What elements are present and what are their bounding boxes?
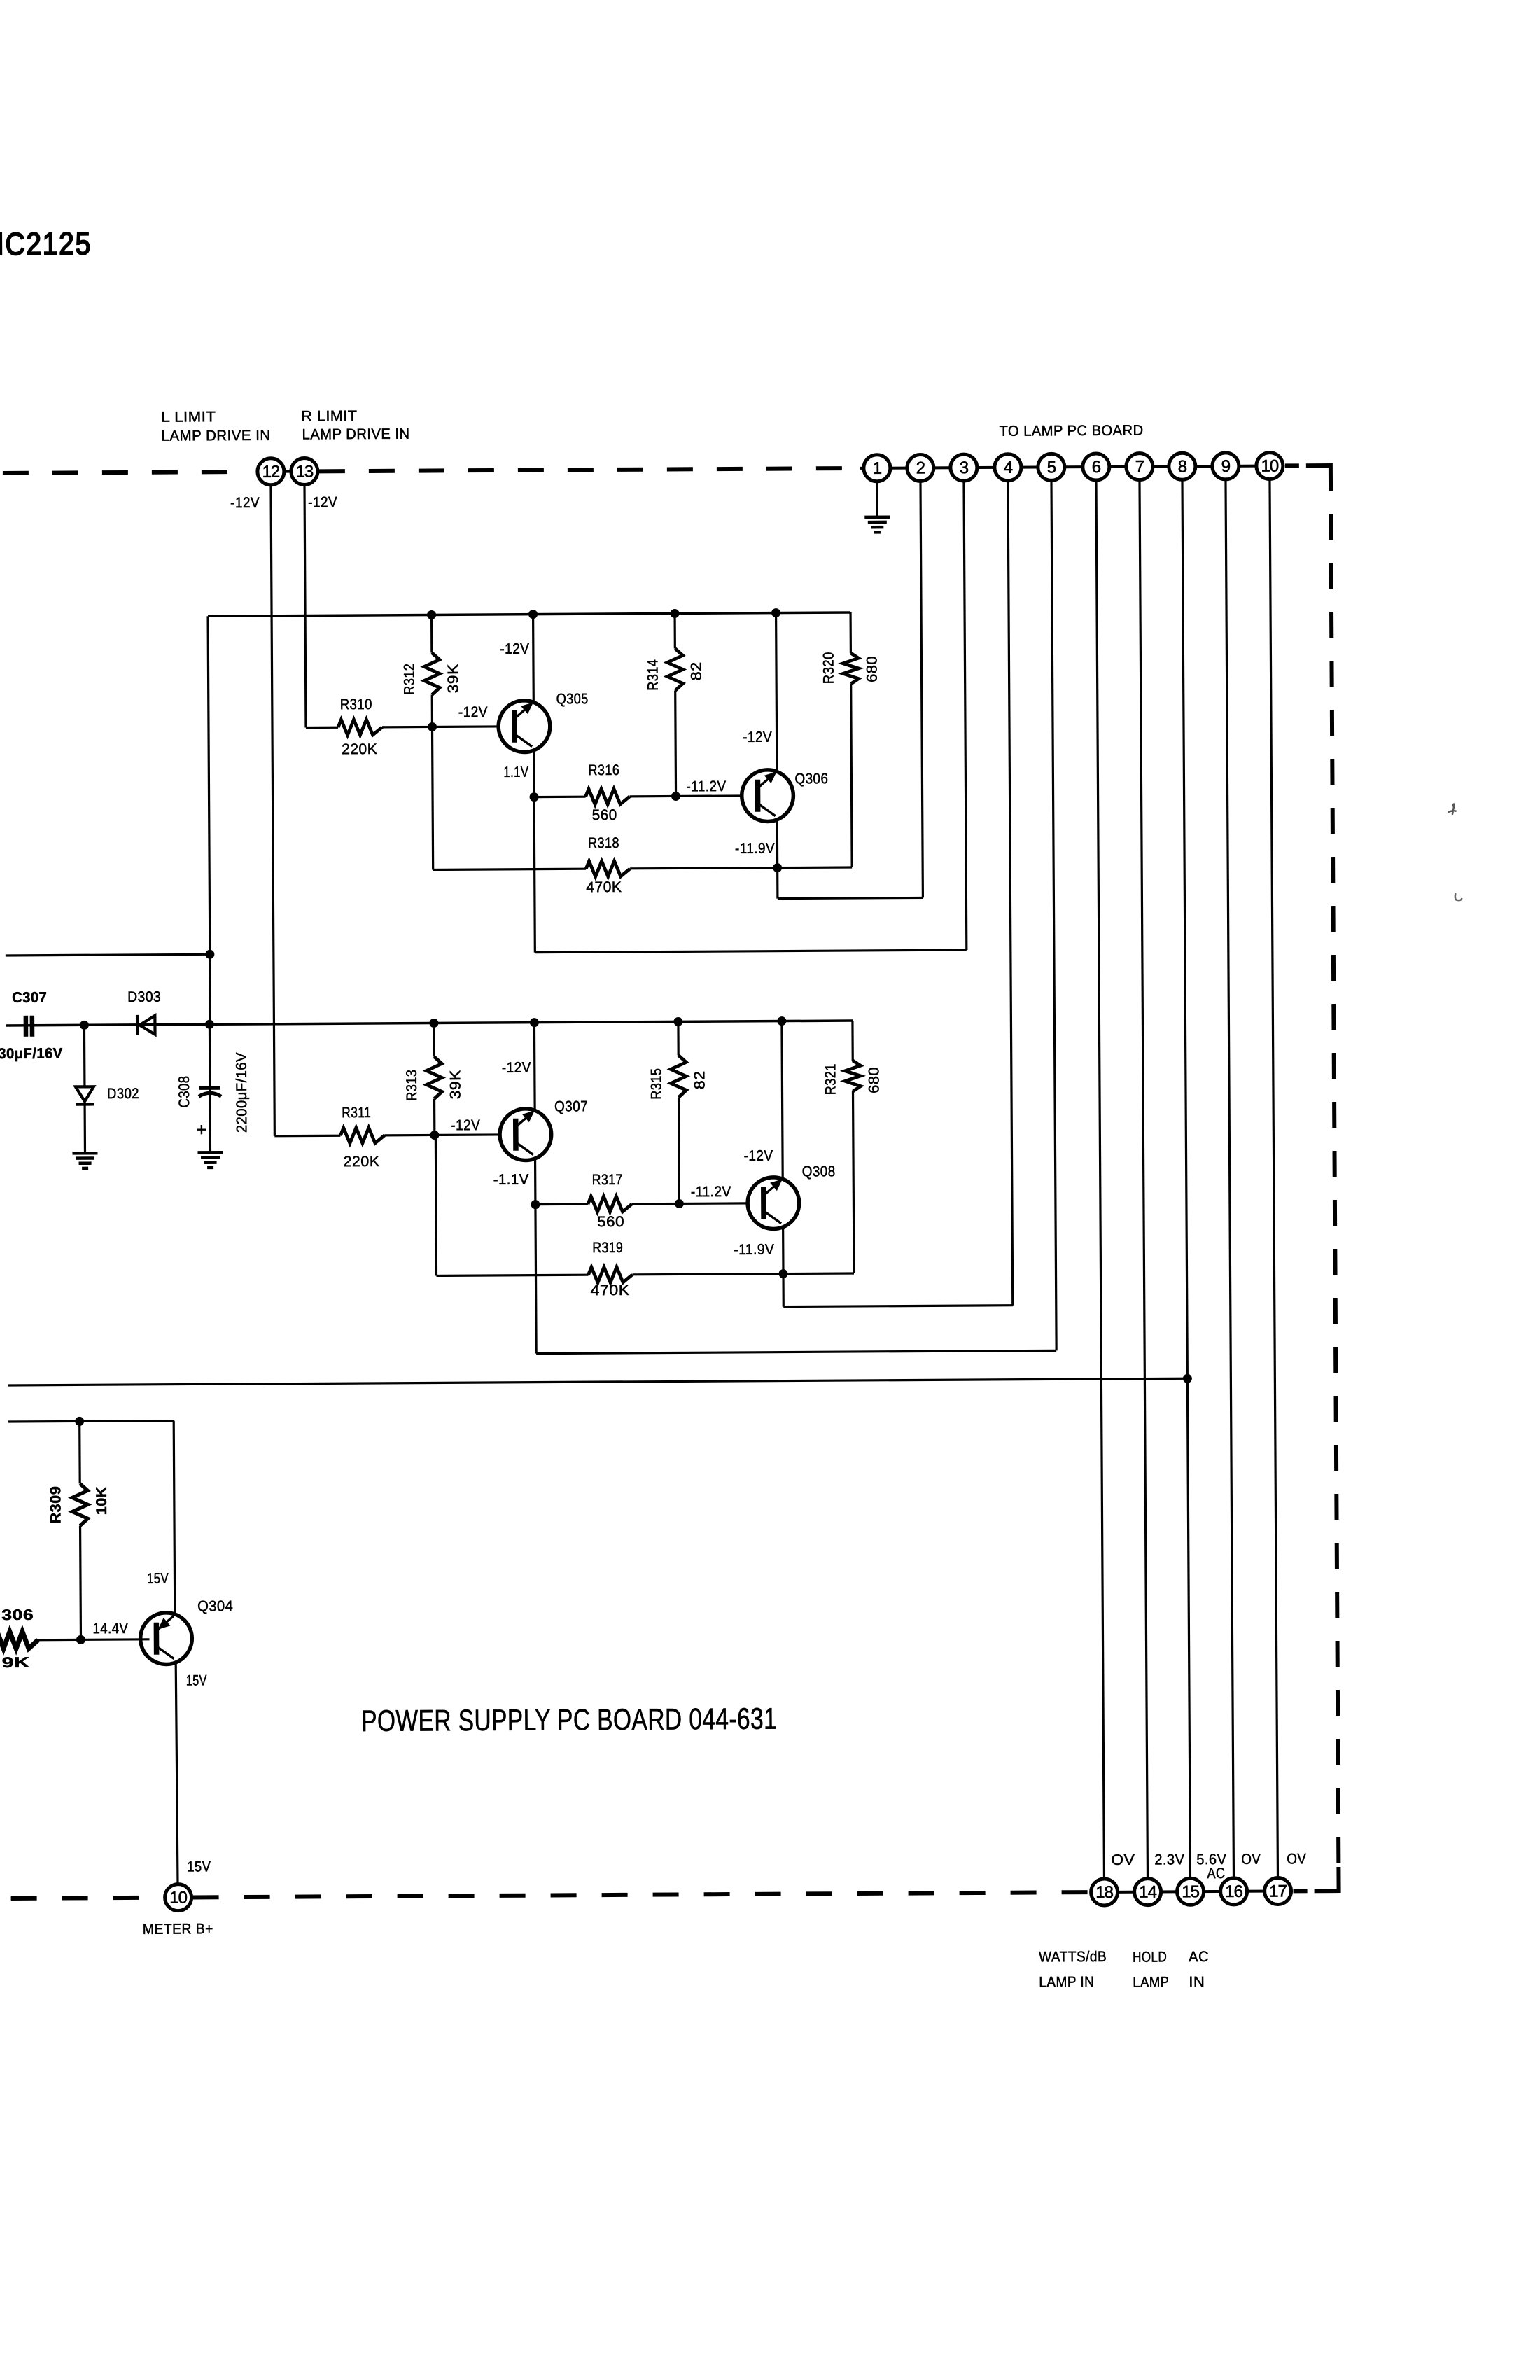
svg-text:4: 4	[1004, 458, 1013, 477]
wire terminal 13 drop to R310	[304, 484, 338, 727]
svg-text:-12V: -12V	[230, 495, 260, 511]
svg-text:470K: 470K	[591, 1282, 630, 1298]
wire 15V feed to Q304 collector	[8, 1421, 175, 1613]
resistor R316 560	[534, 762, 676, 823]
wire left stub at y1365	[6, 954, 210, 955]
svg-text:82: 82	[692, 1070, 708, 1089]
svg-text:680: 680	[864, 656, 880, 682]
wire Q308 collector to rail	[743, 1021, 783, 1179]
svg-text:220K: 220K	[344, 1154, 380, 1170]
transistor Q306	[742, 769, 829, 821]
label OV at terminal 17	[1287, 1851, 1306, 1867]
label R LIMIT LAMP DRIVE IN	[301, 408, 409, 443]
ground below D302	[72, 1153, 97, 1168]
transistor Q307	[500, 1098, 589, 1161]
svg-text:Q306: Q306	[794, 771, 828, 787]
svg-text:LAMP DRIVE IN: LAMP DRIVE IN	[302, 426, 410, 443]
svg-text:+: +	[196, 1119, 207, 1140]
terminal 17	[1264, 1877, 1291, 1904]
svg-text:R318: R318	[588, 835, 619, 851]
svg-text:R LIMIT: R LIMIT	[301, 408, 357, 424]
label OV at terminal 18	[1111, 1852, 1135, 1868]
svg-text:HOLD: HOLD	[1133, 1949, 1167, 1965]
terminal 13	[284, 458, 318, 484]
node junction R313 top on rail	[429, 1018, 438, 1028]
svg-text:R311: R311	[342, 1105, 371, 1121]
node junction R312 top on bus	[427, 610, 436, 619]
svg-text:14.4V: 14.4V	[92, 1620, 128, 1637]
stray pen mark right margin	[1455, 893, 1462, 900]
wire Q306 emitter down	[776, 820, 779, 868]
terminal 2	[907, 454, 934, 481]
wire top dashed board boundary middle	[319, 468, 862, 471]
svg-text:330μF/16V: 330μF/16V	[0, 1046, 63, 1063]
label 5.6V AC at terminal 15	[1196, 1851, 1226, 1882]
wire Q305 emitter down	[533, 750, 535, 797]
wire Q307 collector to rail	[501, 1023, 535, 1111]
wire Q306 base	[675, 778, 742, 797]
svg-text:15V: 15V	[187, 1858, 211, 1875]
svg-text:Q308: Q308	[802, 1163, 836, 1179]
svg-text:-12V: -12V	[308, 494, 337, 510]
svg-text:17: 17	[1269, 1882, 1287, 1900]
wire Q305 base	[432, 704, 498, 727]
label TO LAMP PC BOARD	[1000, 423, 1144, 440]
ground at terminal 1	[864, 482, 890, 533]
svg-text:R309: R309	[48, 1486, 64, 1524]
svg-text:680: 680	[866, 1067, 882, 1093]
svg-text:LAMP: LAMP	[1133, 1974, 1169, 1990]
resistor R321 680	[782, 1021, 883, 1274]
label 1.1V Q305 emitter voltage	[503, 764, 528, 780]
svg-text:-12V: -12V	[451, 1117, 480, 1133]
wire bottom dashed board boundary middle	[193, 1892, 1089, 1897]
svg-text:R313: R313	[404, 1070, 420, 1101]
svg-text:2.3V: 2.3V	[1154, 1851, 1184, 1868]
terminal 10 meter B+	[165, 1884, 192, 1910]
terminal 7	[1126, 454, 1153, 480]
svg-text:560: 560	[592, 807, 617, 823]
svg-text:-1.1V: -1.1V	[493, 1172, 529, 1188]
svg-text:IC2125: IC2125	[0, 225, 92, 262]
wire terminal 9 to terminal 16	[1226, 479, 1234, 1878]
svg-text:15: 15	[1182, 1882, 1200, 1901]
transistor Q308	[748, 1163, 836, 1229]
resistor R317 560	[535, 1171, 680, 1230]
terminal 9	[1212, 453, 1239, 479]
wire Q304 base	[38, 1620, 149, 1640]
wire Q307 base	[435, 1117, 500, 1135]
label WATTS/dB LAMP IN	[1039, 1949, 1107, 1991]
label 15V Q304 collector	[147, 1571, 169, 1587]
wire bottom terminal strip link	[1090, 1891, 1293, 1892]
wire terminal 12 drop to R311	[271, 484, 340, 1136]
svg-text:10: 10	[1261, 456, 1279, 475]
terminal 4	[995, 454, 1021, 481]
resistor R315 82	[648, 1021, 708, 1203]
label -12V at terminal 13	[308, 494, 337, 510]
svg-text:R320: R320	[820, 652, 836, 684]
node junction C308 tap	[205, 1020, 214, 1029]
svg-text:82: 82	[688, 661, 704, 680]
terminal 18	[1091, 1879, 1117, 1905]
wire terminal 7 to terminal 14	[1140, 480, 1148, 1879]
wire terminal 8 to terminal 15	[1182, 479, 1191, 1878]
svg-text:IN: IN	[1189, 1974, 1205, 1990]
terminal 6	[1083, 454, 1109, 480]
svg-text:10: 10	[169, 1889, 188, 1907]
svg-text:R316: R316	[588, 762, 619, 778]
svg-text:L LIMIT: L LIMIT	[161, 409, 216, 425]
node junction Q304 base	[76, 1635, 85, 1644]
wire Q304 emitter to terminal 10 meter	[176, 1662, 178, 1884]
wire Q306 emitter node to terminal 2	[775, 481, 923, 898]
svg-text:POWER SUPPLY PC BOARD 044-631: POWER SUPPLY PC BOARD 044-631	[361, 1702, 777, 1738]
label -1.1V Q307 emitter voltage	[493, 1172, 529, 1188]
svg-text:-11.9V: -11.9V	[735, 841, 775, 857]
capacitor C308 2200uF/16V	[176, 1024, 250, 1151]
wire dashed board boundary right corner bottom	[1293, 1867, 1338, 1891]
svg-text:D302: D302	[107, 1086, 139, 1102]
svg-text:9K: 9K	[2, 1655, 30, 1671]
svg-text:16: 16	[1225, 1882, 1243, 1901]
svg-text:LAMP IN: LAMP IN	[1039, 1974, 1094, 1990]
node junction Q307 collector on rail	[530, 1018, 539, 1027]
node junction Q308 emitter R319 R321	[778, 1269, 787, 1278]
svg-text:-12V: -12V	[743, 1148, 773, 1164]
node junction R317 right R315 bottom	[675, 1199, 684, 1208]
resistor R318 470K	[432, 725, 777, 897]
label 15V Q304 emitter	[186, 1672, 207, 1688]
svg-text:OV: OV	[1241, 1851, 1261, 1868]
node junction R315 top on rail	[673, 1017, 682, 1026]
svg-text:1: 1	[873, 459, 882, 478]
node junction Q308 collector on rail	[777, 1016, 786, 1025]
wire Q308 emitter node to terminal 4	[778, 481, 1012, 1307]
label HOLD LAMP	[1133, 1949, 1169, 1990]
node junction Q305 base	[428, 722, 437, 731]
svg-text:D303: D303	[127, 989, 161, 1005]
node junction lamp feed at terminal 8 wire	[1183, 1374, 1192, 1383]
node junction R309 top	[75, 1417, 84, 1426]
svg-text:-12V: -12V	[502, 1060, 531, 1076]
wire Q305 emitter node to terminal 3	[532, 481, 966, 953]
node junction D302 tap	[80, 1021, 89, 1030]
resistor R314 82	[645, 613, 706, 796]
svg-text:220K: 220K	[342, 741, 377, 757]
resistor R309 10K	[48, 1421, 111, 1640]
terminal 14	[1134, 1878, 1161, 1905]
svg-text:14: 14	[1139, 1883, 1157, 1902]
ground below C308	[197, 1152, 223, 1168]
resistor R313 39K	[403, 1023, 463, 1135]
wire terminal 10 to terminal 17	[1270, 479, 1278, 1878]
node junction Q306 emitter R318 R320	[773, 863, 782, 872]
terminal 10	[1256, 452, 1283, 479]
terminal 12	[258, 458, 284, 485]
svg-text:1.1V: 1.1V	[503, 764, 528, 780]
label OV at terminal 16	[1241, 1851, 1261, 1868]
resistor R308 partial at page edge	[0, 1607, 38, 1671]
svg-text:15V: 15V	[186, 1672, 207, 1688]
transistor Q304	[140, 1598, 233, 1665]
svg-text:OV: OV	[1287, 1851, 1306, 1867]
wire Q308 base	[679, 1184, 748, 1204]
svg-text:WATTS/dB: WATTS/dB	[1039, 1949, 1107, 1966]
svg-text:7: 7	[1135, 458, 1144, 477]
label METER B+	[143, 1921, 213, 1938]
svg-text:8: 8	[1178, 457, 1187, 476]
svg-text:13: 13	[295, 462, 314, 481]
svg-text:-11.2V: -11.2V	[686, 778, 726, 794]
title POWER SUPPLY PC BOARD 044-631	[361, 1702, 777, 1738]
svg-text:TO LAMP PC BOARD: TO LAMP PC BOARD	[1000, 423, 1144, 440]
resistor R320 680	[776, 612, 882, 868]
wire upper bus left drop to rail	[208, 616, 210, 1024]
node junction Q307 emitter	[531, 1200, 540, 1209]
diode D303	[127, 989, 161, 1035]
label 15V at meter terminal	[187, 1858, 211, 1875]
resistor R311 220K	[340, 1104, 435, 1170]
wire terminal 6 to terminal 18	[1096, 480, 1105, 1879]
transistor Q305	[498, 691, 589, 752]
svg-text:12: 12	[262, 463, 280, 482]
svg-text:R314: R314	[645, 659, 661, 691]
label -12V at terminal 12	[230, 495, 260, 511]
label -11.9V Q306 emitter voltage	[735, 841, 775, 857]
node junction R316 right R314 bottom	[671, 792, 680, 801]
label 2.3V at terminal 14	[1154, 1851, 1184, 1868]
svg-text:METER B+: METER B+	[143, 1921, 213, 1938]
wire Q306 collector to bus	[742, 613, 777, 772]
svg-text:39K: 39K	[447, 1070, 463, 1099]
node junction Q305 collector on bus	[528, 610, 538, 619]
svg-text:15V: 15V	[147, 1571, 169, 1587]
capacitor C307	[0, 990, 63, 1063]
svg-text:470K: 470K	[586, 879, 622, 895]
svg-text:AC: AC	[1189, 1949, 1209, 1965]
wire -12V rail	[6, 1021, 853, 1025]
svg-text:AC: AC	[1207, 1865, 1225, 1882]
svg-text:9: 9	[1221, 457, 1231, 476]
label -11.9V Q308 emitter voltage	[734, 1242, 774, 1258]
wire -12V bus upper	[208, 612, 850, 616]
wire watts/db lamp feed	[8, 1378, 1187, 1385]
svg-text:Q307: Q307	[554, 1098, 588, 1114]
svg-text:-12V: -12V	[743, 729, 772, 745]
label L LIMIT LAMP DRIVE IN	[161, 409, 270, 444]
svg-text:R312: R312	[401, 664, 417, 695]
svg-text:560: 560	[597, 1214, 624, 1230]
terminal 5	[1038, 454, 1065, 480]
svg-text:5: 5	[1047, 458, 1056, 477]
page title text IC2125	[0, 225, 92, 262]
stray pen mark upper right	[1448, 804, 1457, 814]
node junction R314 top on bus	[671, 609, 680, 618]
svg-text:39K: 39K	[445, 664, 461, 693]
svg-text:-12V: -12V	[500, 641, 529, 657]
svg-text:6: 6	[1092, 458, 1101, 477]
svg-text:3: 3	[960, 458, 969, 477]
wire dashed board boundary right side	[1331, 514, 1338, 1865]
svg-text:2: 2	[916, 458, 925, 477]
wire top dashed board boundary left	[3, 472, 244, 473]
wire bottom dashed board boundary left	[11, 1898, 164, 1898]
svg-text:-11.2V: -11.2V	[691, 1184, 731, 1200]
terminal 1	[864, 455, 890, 482]
svg-text:18: 18	[1095, 1883, 1114, 1902]
svg-text:Q305: Q305	[556, 691, 589, 707]
terminal 15	[1177, 1878, 1203, 1905]
wire terminal strip link	[860, 466, 1271, 468]
terminal 3	[951, 454, 977, 481]
svg-text:R310: R310	[340, 696, 372, 713]
svg-text:LAMP DRIVE IN: LAMP DRIVE IN	[162, 428, 271, 444]
svg-text:2200μF/16V: 2200μF/16V	[234, 1052, 251, 1133]
svg-text:R317: R317	[592, 1172, 623, 1188]
terminal 8	[1169, 453, 1196, 479]
resistor R310 220K	[338, 696, 433, 757]
wire Q307 emitter node to terminal 5	[531, 480, 1056, 1353]
svg-text:C308: C308	[176, 1075, 192, 1107]
svg-text:Q304: Q304	[197, 1598, 233, 1614]
svg-text:R321: R321	[822, 1063, 839, 1095]
svg-text:C307: C307	[12, 990, 47, 1006]
wire dashed board boundary right corner top	[1285, 465, 1331, 491]
svg-text:306: 306	[1, 1607, 34, 1623]
wire Q305 collector to bus	[500, 615, 533, 703]
wire Q307 emitter down	[534, 1158, 537, 1205]
svg-text:-12V: -12V	[458, 704, 488, 720]
svg-text:-11.9V: -11.9V	[734, 1242, 774, 1258]
svg-text:10K: 10K	[94, 1486, 110, 1515]
wire Q308 emitter down	[782, 1227, 785, 1274]
resistor R319 470K	[435, 1133, 783, 1300]
svg-text:R319: R319	[592, 1240, 623, 1256]
label AC IN	[1189, 1949, 1209, 1990]
node junction Q306 collector on bus	[771, 608, 780, 617]
node junction Q305 emitter	[530, 792, 539, 801]
svg-text:R315: R315	[648, 1068, 664, 1100]
terminal 16	[1220, 1878, 1247, 1905]
node junction Q307 base	[430, 1130, 439, 1140]
resistor R312 39K	[401, 615, 461, 727]
node junction upper-left drop at y1365	[205, 950, 214, 959]
svg-text:OV: OV	[1111, 1852, 1135, 1868]
diode D302	[75, 1025, 139, 1152]
